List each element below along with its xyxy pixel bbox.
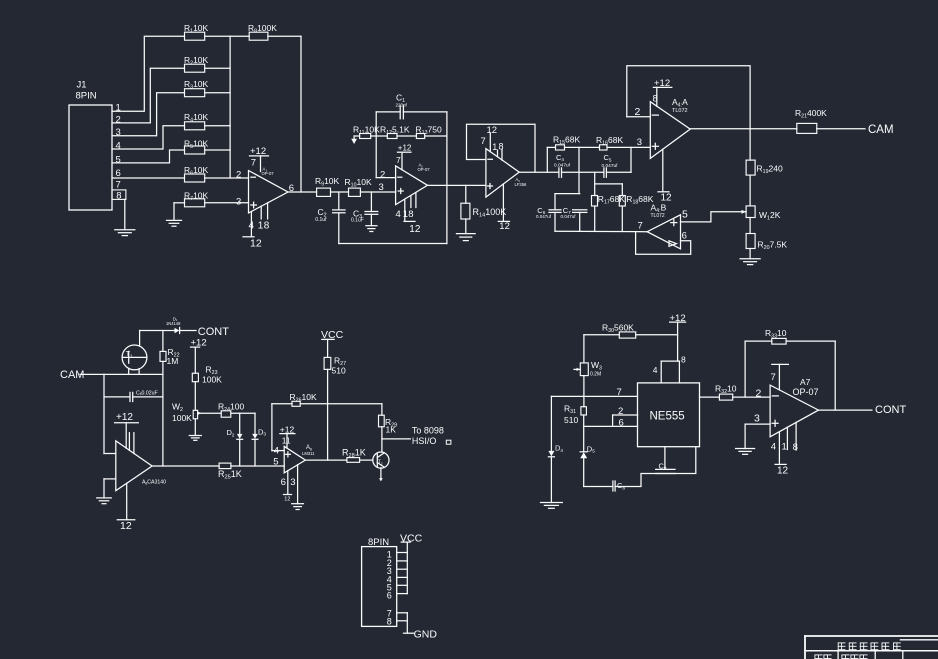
svg-text:8: 8 <box>681 354 686 364</box>
svg-text:R510K: R510K <box>184 139 209 151</box>
svg-text:2: 2 <box>618 406 623 417</box>
svg-text:R8100K: R8100K <box>248 23 277 35</box>
svg-text:R310K: R310K <box>184 79 209 91</box>
svg-text:5: 5 <box>273 457 278 468</box>
svg-text:TL072: TL072 <box>651 213 665 219</box>
svg-text:0.2M: 0.2M <box>590 372 601 378</box>
svg-text:6: 6 <box>619 417 624 428</box>
svg-text:12: 12 <box>661 192 673 203</box>
svg-text:GND: GND <box>414 628 438 640</box>
svg-text:7: 7 <box>481 136 486 147</box>
svg-text:R13750: R13750 <box>416 125 442 137</box>
svg-text:R1010K: R1010K <box>345 177 372 189</box>
svg-text:12: 12 <box>284 497 290 503</box>
svg-text:7: 7 <box>116 180 121 191</box>
svg-text:R24100: R24100 <box>218 402 244 414</box>
svg-text:0.1uf: 0.1uf <box>315 217 327 223</box>
svg-text:R125.1K: R125.1K <box>380 125 410 137</box>
svg-text:A7: A7 <box>800 377 811 387</box>
svg-text:5: 5 <box>682 209 688 221</box>
svg-text:8: 8 <box>499 142 504 152</box>
svg-text:2: 2 <box>236 169 241 180</box>
svg-text:12: 12 <box>409 224 421 235</box>
svg-text:R1668K: R1668K <box>596 135 623 147</box>
svg-text:1: 1 <box>782 441 787 452</box>
svg-text:8: 8 <box>264 221 270 232</box>
svg-text:5: 5 <box>116 154 121 165</box>
svg-text:7: 7 <box>617 387 622 398</box>
svg-text:3: 3 <box>236 196 241 207</box>
svg-text:R281K: R281K <box>342 448 366 460</box>
svg-text:11: 11 <box>282 436 291 446</box>
svg-text:R1568K: R1568K <box>553 134 580 146</box>
svg-text:J1: J1 <box>77 80 87 91</box>
svg-text:4: 4 <box>249 221 255 232</box>
svg-text:+12: +12 <box>398 144 412 153</box>
svg-text:1K: 1K <box>386 425 397 435</box>
svg-text:R14100K: R14100K <box>473 207 507 219</box>
svg-text:100K: 100K <box>202 374 222 384</box>
svg-text:R910K: R910K <box>315 176 340 188</box>
svg-text:R710K: R710K <box>184 190 209 202</box>
svg-text:8: 8 <box>387 616 392 626</box>
svg-text:R1110K: R1110K <box>353 125 380 137</box>
svg-text:12: 12 <box>499 221 510 232</box>
svg-text:R30560K: R30560K <box>602 323 634 335</box>
svg-text:LM311: LM311 <box>302 451 315 456</box>
svg-text:1: 1 <box>403 209 408 220</box>
svg-text:1M: 1M <box>167 356 179 366</box>
svg-text:+12: +12 <box>116 412 133 423</box>
svg-text:R410K: R410K <box>184 112 209 124</box>
svg-text:1: 1 <box>116 103 121 114</box>
svg-text:7: 7 <box>251 158 256 169</box>
svg-text:HSI/O: HSI/O <box>412 436 437 446</box>
svg-text:1N4148: 1N4148 <box>166 321 181 326</box>
svg-text:4: 4 <box>771 441 776 452</box>
svg-text:R210K: R210K <box>184 55 209 67</box>
svg-text:12: 12 <box>487 125 498 136</box>
svg-text:W12K: W12K <box>759 210 781 222</box>
svg-text:0.1uF: 0.1uF <box>351 217 364 223</box>
svg-text:2: 2 <box>380 169 385 180</box>
svg-text:C80.02uF: C80.02uF <box>136 390 158 396</box>
svg-text:R110K: R110K <box>184 23 209 35</box>
svg-text:6: 6 <box>682 231 687 242</box>
svg-text:OP-07: OP-07 <box>262 171 275 176</box>
svg-text:+12: +12 <box>280 424 295 434</box>
svg-text:6: 6 <box>387 591 392 601</box>
svg-text:3: 3 <box>754 413 760 425</box>
svg-text:4: 4 <box>116 141 121 152</box>
svg-text:3: 3 <box>379 182 384 193</box>
svg-text:2: 2 <box>756 388 762 400</box>
svg-text:R207.5K: R207.5K <box>758 239 788 251</box>
svg-text:510: 510 <box>564 415 578 425</box>
svg-text:R19240: R19240 <box>757 163 783 175</box>
svg-text:6: 6 <box>281 477 286 488</box>
svg-text:7: 7 <box>638 220 643 231</box>
svg-text:8: 8 <box>653 94 658 105</box>
svg-text:0.047uf: 0.047uf <box>561 214 577 219</box>
svg-text:0.047uf: 0.047uf <box>554 162 571 168</box>
svg-text:0.047uf: 0.047uf <box>536 214 552 219</box>
svg-text:8: 8 <box>793 442 798 453</box>
svg-text:12: 12 <box>250 237 262 249</box>
svg-text:3: 3 <box>290 477 295 488</box>
svg-text:12: 12 <box>777 465 789 476</box>
svg-text:R21400K: R21400K <box>795 108 827 120</box>
svg-text:4: 4 <box>396 209 401 220</box>
svg-text:12: 12 <box>120 520 132 532</box>
svg-text:7: 7 <box>396 155 401 165</box>
svg-text:R610K: R610K <box>184 165 209 177</box>
svg-text:2: 2 <box>635 106 641 118</box>
svg-text:CAM: CAM <box>868 124 894 136</box>
svg-text:100K: 100K <box>172 413 192 423</box>
svg-text:4: 4 <box>653 365 658 375</box>
svg-text:6: 6 <box>116 168 121 179</box>
svg-text:OP-07: OP-07 <box>793 387 819 397</box>
svg-text:3: 3 <box>637 137 642 148</box>
svg-text:0.047uf: 0.047uf <box>602 163 619 169</box>
svg-text:OP-07: OP-07 <box>418 167 431 172</box>
svg-text:R251K: R251K <box>218 469 242 481</box>
svg-text:NE555: NE555 <box>650 410 685 422</box>
svg-text:1: 1 <box>492 142 497 152</box>
svg-text:CONT: CONT <box>198 326 229 338</box>
svg-text:8: 8 <box>116 191 121 202</box>
svg-text:8PIN: 8PIN <box>76 91 97 102</box>
svg-text:CAM: CAM <box>60 369 84 381</box>
svg-text:TL072: TL072 <box>672 108 688 114</box>
svg-text:4: 4 <box>274 445 279 456</box>
svg-text:R1768K: R1768K <box>598 194 625 206</box>
svg-text:8: 8 <box>408 209 413 220</box>
svg-text:CONT: CONT <box>875 404 906 416</box>
svg-text:220pf: 220pf <box>396 102 408 107</box>
svg-text:R2610K: R2610K <box>290 392 317 404</box>
svg-text:LF356: LF356 <box>515 182 528 187</box>
svg-text:510: 510 <box>332 366 346 376</box>
svg-text:3: 3 <box>116 127 121 138</box>
svg-text:7: 7 <box>771 372 776 383</box>
svg-text:2: 2 <box>116 114 121 125</box>
svg-text:To 8098: To 8098 <box>412 425 444 435</box>
